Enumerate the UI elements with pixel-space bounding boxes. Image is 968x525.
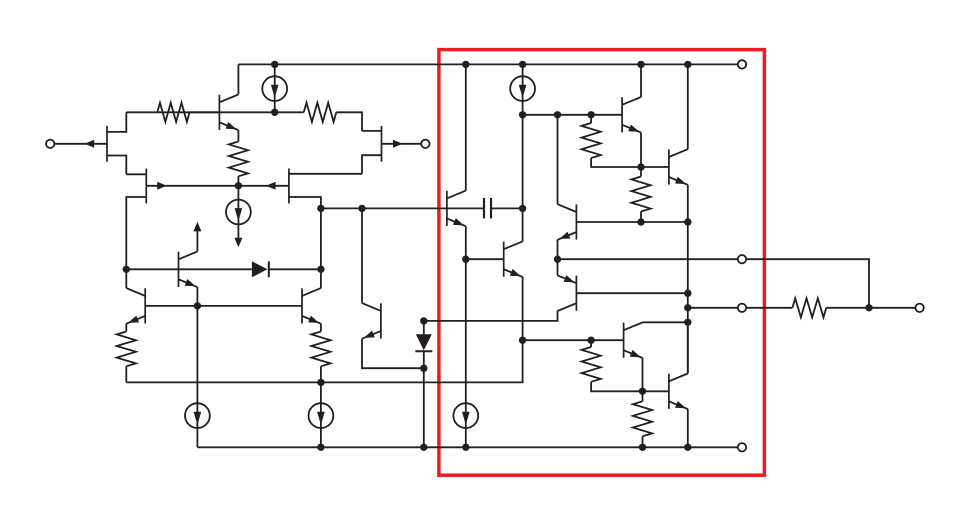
wire Qcomp emitter — [465, 226, 467, 403]
node V- R8 — [639, 444, 646, 451]
node CS2 rail — [519, 61, 526, 68]
resistor R3 — [229, 142, 248, 177]
wire J1 drain — [107, 112, 126, 132]
wire J4 node to mirror — [320, 208, 322, 269]
wire J3 drain — [362, 130, 382, 132]
transistor QE — [669, 374, 688, 410]
node rail Q2 — [684, 61, 691, 68]
wire Q2 emitter — [687, 185, 689, 222]
terminal OUT sense — [738, 255, 746, 263]
wire J2 drain — [126, 173, 146, 175]
wire mirror base line — [145, 305, 302, 307]
node external — [865, 304, 872, 311]
wire QE collector — [687, 322, 689, 373]
wire mirror line left — [126, 268, 252, 270]
wire Qtop base right — [219, 111, 274, 113]
node Qtop-CS1 — [271, 109, 278, 116]
wire R3 to node — [237, 176, 239, 186]
node V- QE — [684, 444, 691, 451]
wire comp line — [321, 207, 447, 209]
wire Qp2 emitter — [320, 324, 322, 332]
gate arrow J3 — [393, 140, 403, 148]
wire QB emitter — [557, 240, 559, 259]
wire to OUT terminal — [869, 307, 915, 309]
wire QD emitter — [642, 358, 644, 391]
wire output line — [558, 258, 738, 260]
wire Q1 collector — [640, 64, 642, 97]
wire bias to terminal — [688, 307, 738, 309]
wire output external — [746, 259, 869, 308]
terminal V- — [738, 443, 746, 451]
node lower bias R7 — [587, 337, 594, 344]
transistor Tmid — [179, 252, 198, 288]
current source I4 — [309, 382, 334, 447]
current source I3 — [185, 306, 210, 447]
node bias out2 — [684, 304, 691, 311]
wire QE base — [643, 390, 669, 392]
node D1 cathode — [420, 365, 427, 372]
wire QA collector — [522, 115, 524, 242]
transistor QD — [624, 322, 643, 358]
node mirror left — [123, 266, 130, 273]
transistor Qp1 — [126, 288, 145, 324]
node QA emitter — [519, 337, 526, 344]
node rail Qcomp — [462, 61, 469, 68]
wire R4a to lineA — [125, 366, 127, 382]
wire Rext to node — [826, 307, 869, 309]
wire Tdio emitter — [362, 339, 424, 369]
wire J4 source — [289, 197, 321, 208]
jfet J4 bar — [288, 169, 290, 204]
terminal V+ — [738, 60, 746, 68]
node mirror right — [317, 266, 324, 273]
wire Qtop collector — [237, 64, 239, 94]
jfet J3 bar — [381, 126, 383, 162]
terminal OUT — [738, 304, 746, 312]
node rail Q1 — [637, 61, 644, 68]
resistor R4b — [311, 332, 330, 367]
node upper bias QB — [554, 111, 561, 118]
transistor QA — [504, 241, 523, 277]
resistor Rext — [792, 298, 826, 317]
wire Qp2 collector — [320, 269, 322, 288]
wire Qtop emitter down — [237, 130, 239, 141]
node V- D1 — [420, 444, 427, 451]
current source I5 — [453, 403, 478, 447]
wire base line — [126, 111, 219, 113]
wire QD collector — [643, 321, 688, 323]
gate arrow J4 — [266, 182, 276, 190]
node V- CS4 — [317, 444, 324, 451]
wire Qp1 collector — [125, 269, 127, 288]
transistor Qcomp — [447, 191, 466, 227]
terminal OUT external — [915, 304, 923, 312]
wire J3 source — [362, 155, 382, 174]
node CS1 rail — [271, 61, 278, 68]
wire J1 source — [107, 156, 126, 175]
jfet J2 bar — [145, 169, 147, 204]
node Tdio base D1 — [420, 317, 427, 324]
resistor R8 — [633, 391, 652, 447]
transistor Qtop — [219, 95, 238, 131]
wire negative rail V- — [197, 446, 737, 448]
wire Qcomp collector — [465, 64, 467, 190]
terminal input IN- — [46, 140, 54, 148]
resistor R1 — [157, 103, 189, 122]
gate arrow J1 — [85, 140, 95, 148]
node upper bias CS2 — [519, 111, 526, 118]
arrow I2 tail — [234, 238, 242, 248]
transistor QC — [558, 275, 577, 311]
wire J3 gate — [382, 143, 422, 145]
output stage highlight box — [439, 50, 765, 476]
wire R1 stub — [190, 111, 220, 113]
node bias QCbase — [684, 290, 691, 297]
wire Tmid collector stub — [196, 230, 198, 252]
node Cc QA collector — [519, 205, 526, 212]
transistor Tdio — [362, 303, 381, 339]
resistor R4a — [117, 332, 136, 367]
wire QE emitter — [687, 409, 689, 447]
wire I2 tail — [237, 224, 239, 239]
current source I1 — [262, 64, 287, 112]
resistor R6 — [631, 167, 650, 222]
wire QB base line — [576, 221, 687, 223]
wire QC base — [576, 292, 687, 294]
node Tmid emitter — [194, 302, 201, 309]
arrow Tmid collector — [193, 222, 201, 232]
wire J4 gate — [238, 185, 289, 187]
transistor Qp2 — [302, 288, 321, 324]
node comp Tdio — [358, 205, 365, 212]
wire Q1 emitter — [640, 133, 642, 167]
resistor R2 — [304, 103, 337, 122]
transistor QB — [558, 204, 577, 240]
wire QC collector — [424, 311, 558, 321]
node QB line Q2 — [684, 218, 691, 225]
jfet J1 bar — [106, 126, 108, 162]
wire to R2 — [275, 111, 304, 113]
terminal input IN+ — [421, 140, 429, 148]
wire upper bias line — [523, 114, 623, 116]
transistor Q2 — [669, 149, 688, 185]
wire line A — [126, 340, 522, 382]
wire J2 gate — [146, 185, 238, 187]
wire to external resistor — [746, 307, 792, 309]
wire R2 to J3 — [336, 112, 362, 131]
wire Tmid emitter — [196, 287, 198, 306]
diode D1 — [415, 321, 432, 368]
wire QB collector — [557, 115, 559, 204]
wire Q2 collector — [687, 64, 689, 149]
wire IN- to J1 gate — [54, 143, 107, 145]
node V- CS5 — [462, 444, 469, 451]
wire D1 to V- — [423, 368, 425, 447]
node mirror gate — [235, 182, 242, 189]
node comp J4 — [317, 205, 324, 212]
wire J2 source — [126, 197, 146, 269]
wire lower bias line — [523, 339, 624, 341]
wire Tdio collector — [361, 208, 363, 303]
node bias QD — [684, 319, 691, 326]
wire bias vertical — [687, 222, 689, 374]
wire J4 drain — [289, 173, 362, 175]
wire mirror line right — [269, 268, 321, 270]
wire QC emitter — [557, 259, 559, 275]
node lineA-CS4 — [317, 379, 324, 386]
node upper bias R5 — [587, 111, 594, 118]
diode D2 — [252, 261, 269, 277]
current source I2 — [226, 186, 251, 225]
wire QA emitter — [522, 277, 524, 340]
wire Qp1 emitter — [125, 324, 127, 332]
current source I6 — [510, 64, 535, 114]
transistor Q1 — [622, 97, 641, 133]
node R5 Q1emitter — [637, 163, 644, 170]
node Qcomp emitter QA — [462, 256, 469, 263]
wire positive supply rail V+ — [238, 63, 737, 65]
wire QA base — [466, 258, 504, 260]
node QB line R6 — [637, 218, 644, 225]
capacitor Cc — [447, 198, 523, 218]
node QD emitter — [639, 388, 646, 395]
wire Q2 base — [641, 166, 669, 168]
resistor R7 — [582, 340, 643, 391]
resistor R5 — [582, 115, 642, 167]
wire R4b to lineA — [320, 366, 322, 382]
node output emitters — [554, 256, 561, 263]
gate arrow J2 — [157, 182, 167, 190]
